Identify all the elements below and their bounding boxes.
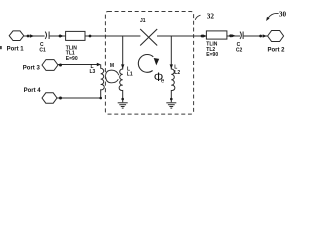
svg-text:C2: C2 bbox=[236, 48, 243, 54]
svg-text:L2: L2 bbox=[174, 70, 180, 76]
svg-text:Port 3: Port 3 bbox=[23, 66, 41, 72]
svg-text:M: M bbox=[110, 63, 114, 69]
svg-text:L1: L1 bbox=[127, 71, 133, 77]
svg-text:Port 2: Port 2 bbox=[268, 47, 286, 53]
svg-text:L3: L3 bbox=[90, 69, 96, 75]
svg-text:Port 4: Port 4 bbox=[24, 88, 42, 94]
svg-text:30: 30 bbox=[279, 11, 287, 19]
svg-text:J1: J1 bbox=[140, 18, 146, 24]
svg-text:C1: C1 bbox=[39, 48, 46, 54]
svg-text:32: 32 bbox=[207, 13, 215, 21]
svg-text:E=90: E=90 bbox=[206, 52, 218, 58]
svg-text:e: e bbox=[161, 77, 165, 84]
svg-text:E=90: E=90 bbox=[66, 56, 78, 62]
svg-text:Port 1: Port 1 bbox=[7, 46, 25, 52]
